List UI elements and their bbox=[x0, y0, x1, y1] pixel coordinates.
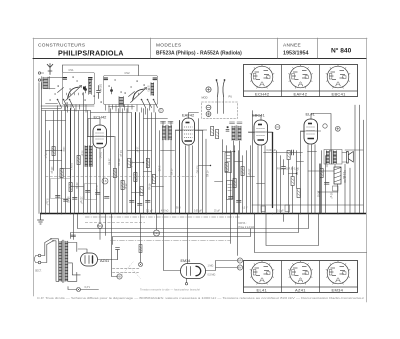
wire h y160 bbox=[50, 160, 62, 162]
wire v x230 bbox=[230, 151, 232, 214]
resistor R17 bbox=[297, 189, 300, 198]
wire v x242 bbox=[242, 156, 244, 214]
transformer secondary winding bbox=[65, 241, 68, 282]
socket EM34 bbox=[326, 260, 350, 284]
socket box2 divider 1 bbox=[281, 261, 283, 293]
resistor R1 bbox=[52, 147, 55, 156]
resistor R15 bbox=[287, 151, 290, 160]
ground symbol bbox=[37, 214, 44, 225]
capacitor C15 polar bbox=[71, 235, 76, 237]
wire v x300 bbox=[300, 156, 302, 214]
wire drop x105 bbox=[105, 214, 107, 236]
gang section 1 outline bbox=[63, 73, 95, 105]
wire IFT1 bottom bbox=[163, 139, 171, 213]
wire top link bbox=[63, 64, 139, 66]
mains switch bbox=[45, 239, 53, 245]
svg-text:50 µF: 50 µF bbox=[330, 193, 333, 200]
wire h seg7 bbox=[199, 165, 211, 167]
wire v x179 rail bbox=[179, 121, 181, 214]
svg-text:50 kΩ: 50 kΩ bbox=[67, 197, 70, 204]
resistor R11 bbox=[152, 175, 155, 184]
socket ECH42 bbox=[250, 64, 274, 88]
wire h seg16 bbox=[161, 150, 175, 152]
resistor R5 bbox=[113, 169, 116, 178]
svg-text:0,1 µF: 0,1 µF bbox=[119, 150, 122, 157]
capacitor C12b bbox=[282, 167, 286, 169]
wire v x208b bbox=[205, 139, 207, 213]
wire v x252 bbox=[252, 111, 254, 214]
dial cord dotted b bbox=[130, 267, 141, 279]
coil L1 antenna coil bbox=[43, 77, 48, 89]
junction dots row bbox=[111, 213, 113, 215]
wire v x238 bbox=[238, 151, 240, 214]
svg-text:AZ41: AZ41 bbox=[295, 287, 306, 292]
socket box frame bottom bbox=[244, 261, 358, 293]
resistor R4 bbox=[77, 156, 80, 165]
wire OT down pair bbox=[327, 164, 335, 167]
capacitor C4 bbox=[86, 191, 91, 193]
wire v x363 bbox=[363, 120, 365, 213]
node dots center bbox=[143, 213, 145, 215]
node dots bus left bbox=[41, 213, 43, 215]
mains plug bbox=[38, 254, 41, 257]
svg-text:90 V: 90 V bbox=[176, 208, 181, 210]
antenna A1 bbox=[47, 64, 53, 75]
wire v x175 bbox=[175, 131, 177, 214]
junction dots bus right bbox=[254, 213, 256, 215]
switch arm b bbox=[129, 92, 135, 97]
band coil winding box1 bbox=[89, 79, 92, 95]
tube EBC41 bbox=[248, 120, 273, 145]
resistor R8 bbox=[134, 173, 137, 182]
svg-text:EL41: EL41 bbox=[306, 112, 316, 117]
wire drop x237 bbox=[237, 214, 239, 256]
osc coil winding b bbox=[90, 146, 93, 167]
wire v x222 bbox=[222, 140, 224, 214]
jack J2 circled bbox=[206, 112, 211, 117]
trimmer CT1b bbox=[89, 78, 93, 80]
output transformer secondary bbox=[333, 151, 336, 164]
wire v x321 bbox=[321, 151, 323, 214]
dashed link heaters bbox=[113, 268, 141, 270]
variable capacitor CV2 bbox=[134, 90, 143, 99]
wire v x325 bbox=[325, 156, 327, 214]
switch S2 contacts bbox=[142, 100, 158, 108]
wire h seg4 bbox=[132, 162, 144, 164]
wire b02 bbox=[99, 214, 101, 240]
wire h seg5 bbox=[144, 171, 152, 173]
svg-text:0,1 µF: 0,1 µF bbox=[277, 211, 284, 213]
svg-text:BR: BR bbox=[238, 259, 242, 263]
wire plate EL41 bbox=[311, 114, 331, 152]
wire v x151 bbox=[151, 113, 153, 214]
dash-dot line mid bbox=[111, 240, 231, 242]
svg-text:0,1 µF: 0,1 µF bbox=[46, 199, 49, 206]
resistor R13 bbox=[233, 179, 236, 188]
wire h seg12 bbox=[257, 183, 265, 185]
wire EM34 right bbox=[206, 261, 238, 271]
transformer primary winding bbox=[59, 241, 62, 282]
svg-text:0,1 µF: 0,1 µF bbox=[146, 211, 153, 213]
svg-text:20 kΩ: 20 kΩ bbox=[99, 152, 102, 159]
transformer core bbox=[63, 240, 64, 283]
svg-text:1 MΩ: 1 MΩ bbox=[158, 166, 161, 172]
chassis dash line bbox=[85, 216, 240, 218]
wire v x65 bbox=[65, 106, 67, 214]
svg-text:B02: B02 bbox=[98, 225, 103, 228]
svg-text:47 kΩ: 47 kΩ bbox=[170, 169, 173, 176]
svg-text:25 µF: 25 µF bbox=[214, 211, 221, 213]
svg-text:0,5 MΩ: 0,5 MΩ bbox=[196, 166, 199, 174]
svg-text:100 pF: 100 pF bbox=[248, 169, 251, 177]
wire drop x230 bbox=[230, 214, 232, 244]
capacitor C5 bbox=[96, 193, 101, 195]
wire v x202 bbox=[202, 131, 204, 214]
wire antenna to coil bbox=[41, 73, 44, 80]
svg-text:EAF42: EAF42 bbox=[294, 91, 308, 96]
coupling capacitor C12 bbox=[292, 150, 294, 155]
wire h seg15 bbox=[308, 151, 317, 153]
speaker HP bbox=[347, 152, 349, 164]
wire plate ECH42 bbox=[107, 136, 115, 138]
switch S3 contact a bbox=[217, 81, 219, 97]
capacitor Cdet bbox=[226, 130, 229, 132]
svg-text:C.P. Tous droits — Schéma diff: C.P. Tous droits — Schéma diffusé pour l… bbox=[37, 296, 364, 300]
wire v x345 bbox=[344, 164, 346, 213]
socket AZ41 bbox=[288, 260, 312, 284]
socket EL41 bbox=[250, 260, 274, 284]
wire grid EL41 bbox=[301, 132, 305, 156]
IFT2 winding a bbox=[232, 126, 235, 141]
wire v x41 bbox=[41, 83, 43, 214]
capacitor C1 bbox=[56, 196, 61, 198]
svg-text:MOD: MOD bbox=[202, 96, 208, 100]
OT shield box bbox=[324, 150, 342, 165]
wire heater run y232 bbox=[71, 214, 299, 239]
svg-text:0,5 MΩ: 0,5 MΩ bbox=[208, 274, 216, 277]
wire drop x140 bbox=[140, 214, 142, 263]
wire v x198 bbox=[198, 119, 200, 214]
wire h seg3 bbox=[71, 186, 84, 188]
wire v x74 bbox=[74, 109, 76, 214]
wire v x288 bbox=[288, 160, 290, 214]
wire grid EAF42 bbox=[176, 130, 183, 132]
resistor R10 bbox=[146, 159, 149, 168]
junction dot L1 bbox=[61, 150, 62, 151]
wire drop x73 bbox=[73, 214, 75, 240]
svg-text:220 pF: 220 pF bbox=[80, 197, 83, 205]
wire v x338 below bbox=[337, 184, 339, 213]
coupling wire y152 bbox=[264, 152, 303, 154]
dashed link heaters 2 bbox=[113, 272, 139, 274]
resistor R3 bbox=[69, 183, 72, 192]
resistor R7 bbox=[128, 159, 131, 168]
wire h y106 rf bbox=[109, 106, 135, 108]
trimmer dot2 bbox=[110, 89, 113, 92]
svg-text:EM34: EM34 bbox=[181, 259, 191, 263]
svg-text:EM34: EM34 bbox=[332, 287, 344, 292]
wire v x61 bbox=[61, 111, 63, 214]
socket box label strip rule bbox=[244, 90, 358, 92]
wire h y120 bbox=[46, 120, 66, 122]
resistor R6 bbox=[121, 181, 124, 190]
wire h seg8 bbox=[215, 181, 223, 183]
IFT2 core bbox=[235, 126, 238, 141]
heater wire lamp bbox=[77, 288, 81, 292]
svg-text:470 kΩ: 470 kΩ bbox=[161, 211, 169, 213]
svg-text:53141: 53141 bbox=[70, 163, 73, 170]
node BR circled bbox=[237, 258, 242, 263]
wire v x234 bbox=[234, 146, 236, 214]
wire h seg6 bbox=[152, 186, 164, 188]
wire transformer to speaker bbox=[342, 153, 347, 163]
wire AZ41 top pin bbox=[78, 249, 87, 253]
svg-text:ECH42: ECH42 bbox=[255, 91, 270, 96]
switch S3 contact b bbox=[223, 81, 225, 97]
svg-text:25 kΩ: 25 kΩ bbox=[108, 159, 111, 166]
connector block small bbox=[333, 186, 339, 191]
IFT1 winding b bbox=[169, 126, 172, 141]
pot P1 circled bbox=[206, 87, 211, 92]
resistor R16 bbox=[291, 177, 294, 186]
IFT1 winding a bbox=[163, 126, 166, 141]
wire loop below bus bbox=[266, 214, 319, 246]
IFT2 trimmer bbox=[230, 122, 243, 124]
wire v x110 bbox=[110, 109, 112, 214]
wire v x45 bbox=[45, 111, 47, 214]
wire v x90 bbox=[90, 111, 92, 214]
wire h seg13 bbox=[289, 173, 297, 175]
tube EL41 bbox=[300, 119, 321, 144]
label REGL circled bbox=[154, 230, 160, 236]
capacitor C3 bbox=[73, 198, 78, 200]
svg-text:1 kΩ: 1 kΩ bbox=[62, 147, 64, 152]
pot box P3 bbox=[227, 181, 233, 200]
header divider 3 bbox=[317, 38, 319, 58]
wire HT secondary top bbox=[68, 243, 77, 252]
socket box2 divider 2 bbox=[319, 261, 321, 293]
resistor R18 cathode bbox=[320, 169, 323, 178]
wire EAF42 pins bbox=[186, 146, 193, 214]
wire v x272 thick HT bbox=[272, 133, 274, 208]
dark blob pad bbox=[83, 87, 86, 90]
wire plug up bbox=[41, 243, 47, 263]
wire switch drops bbox=[218, 97, 224, 114]
svg-text:6,3 V: 6,3 V bbox=[242, 208, 248, 210]
svg-text:6,3 V: 6,3 V bbox=[85, 286, 91, 289]
svg-text:SECT.: SECT. bbox=[35, 271, 42, 273]
capacitor C11 bbox=[237, 201, 242, 203]
svg-text:1953/1954: 1953/1954 bbox=[283, 51, 308, 57]
wire v x118 bbox=[118, 109, 120, 214]
bus value labels bbox=[146, 208, 284, 213]
wire v x131 bbox=[131, 113, 133, 214]
wire v x226 bbox=[226, 146, 228, 214]
jack J1 circled bbox=[206, 105, 211, 110]
wire v x355 bbox=[354, 105, 356, 213]
svg-text:50 pF: 50 pF bbox=[81, 151, 83, 157]
wire h seg14 bbox=[297, 161, 304, 163]
socket EAF42 bbox=[288, 64, 312, 88]
label B02 circled bbox=[98, 224, 103, 229]
wire EBC41 top bbox=[253, 116, 261, 121]
osc coil winding a bbox=[85, 146, 88, 167]
wire v x246 bbox=[246, 151, 248, 214]
svg-text:CV1: CV1 bbox=[69, 68, 75, 72]
frame top rule bbox=[33, 38, 367, 40]
wire v x139 bbox=[139, 113, 141, 214]
svg-text:REG: REG bbox=[154, 232, 159, 235]
wire osc top link bbox=[88, 119, 100, 137]
capacitor C2 bbox=[64, 200, 69, 202]
wire plate to OT bbox=[329, 150, 331, 153]
svg-text:N° 840: N° 840 bbox=[331, 47, 352, 55]
wire drop x187 bbox=[187, 214, 189, 264]
resistor R14 bbox=[241, 167, 244, 176]
dial lamp bbox=[139, 263, 143, 267]
svg-text:B.870: B.870 bbox=[147, 86, 149, 93]
wire h seg2 bbox=[62, 168, 71, 170]
svg-text:Tension mesurée à vide — haut-: Tension mesurée à vide — haut-parleur br… bbox=[140, 289, 201, 292]
wire IFT1 top bbox=[163, 122, 171, 127]
resistor drop box bbox=[139, 245, 142, 253]
socket box2 label strip rule bbox=[244, 286, 358, 288]
wire v x93 pins bbox=[97, 149, 104, 214]
node BV circled bbox=[237, 265, 242, 270]
wire grid EBC41 bbox=[249, 132, 255, 134]
padder cap bbox=[97, 86, 101, 99]
wire h y106 bbox=[41, 105, 94, 107]
wire v x57 bbox=[57, 106, 59, 214]
resistor R2 bbox=[60, 169, 63, 178]
svg-text:1 MΩ: 1 MΩ bbox=[208, 265, 214, 268]
svg-text:ANNEE: ANNEE bbox=[283, 43, 301, 49]
svg-text:100 pF: 100 pF bbox=[50, 167, 52, 175]
gang section 2 outline bbox=[104, 76, 158, 105]
trimmer CT2a bbox=[104, 78, 108, 80]
svg-text:O: O bbox=[160, 110, 162, 113]
pin comb below gang boxes bbox=[65, 105, 155, 115]
socket box divider 1 bbox=[281, 65, 283, 97]
wire v x155 bbox=[155, 113, 157, 214]
node circled 7-8 bbox=[102, 178, 108, 184]
frame left border bbox=[33, 38, 35, 296]
svg-text:MODELES: MODELES bbox=[156, 43, 182, 49]
terminal strip a bbox=[261, 206, 266, 212]
wire h y185 bbox=[318, 191, 338, 193]
wire v x280 bbox=[280, 156, 282, 214]
wire v x87 bbox=[87, 111, 89, 214]
socket box frame top bbox=[244, 65, 358, 97]
wire heater run y236 bbox=[113, 229, 251, 245]
wire plate EAF42 bbox=[195, 130, 203, 132]
svg-text:EBC41: EBC41 bbox=[332, 91, 347, 96]
wire v x147 bbox=[147, 109, 149, 214]
wire EAF42 top bbox=[189, 113, 199, 119]
trimmer dot bbox=[84, 88, 87, 91]
switch S1 contacts bbox=[58, 100, 74, 108]
svg-text:7·8: 7·8 bbox=[103, 180, 107, 183]
wire AZ41 cathode out bbox=[98, 214, 112, 260]
AVC line dashed bbox=[46, 176, 196, 178]
box outline R cluster b bbox=[85, 184, 97, 200]
wire mains run right bbox=[255, 214, 367, 253]
filter electrolytic C14 bbox=[116, 248, 120, 260]
capacitor C7 bbox=[130, 201, 135, 203]
wire h seg9 bbox=[223, 151, 235, 153]
header divider 2 bbox=[277, 38, 279, 58]
wire v x114 bbox=[114, 137, 116, 214]
wire h seg11 bbox=[247, 176, 255, 178]
svg-text:PHILIPS/RADIOLA: PHILIPS/RADIOLA bbox=[58, 49, 124, 58]
trimmer CT2b bbox=[153, 78, 157, 80]
wire h y112 bbox=[91, 112, 132, 114]
wire h y192 bbox=[132, 192, 144, 194]
wire switch to transformer bbox=[51, 239, 59, 281]
capacitor C10 bbox=[229, 197, 234, 199]
resistor Rd2 bbox=[216, 130, 219, 139]
pot box P2 bbox=[225, 153, 232, 173]
wire EBC41 pins bbox=[258, 146, 265, 214]
coil L2 osc coil bbox=[119, 97, 124, 107]
wire h seg1 bbox=[46, 150, 62, 152]
wire v x250 bbox=[250, 146, 252, 214]
chassis ground bus bbox=[40, 213, 366, 215]
wire x117 bbox=[112, 259, 118, 261]
svg-text:0,047 µF: 0,047 µF bbox=[267, 149, 277, 152]
IFT2 winding b bbox=[238, 126, 241, 141]
node circled IF bbox=[159, 108, 163, 112]
junction dots bus mid bbox=[45, 213, 241, 215]
tuning indicator EM34 bbox=[181, 264, 206, 279]
wire v x53 bbox=[53, 111, 55, 171]
wire h y103 rf bbox=[46, 103, 58, 105]
terminal strip b bbox=[285, 205, 290, 212]
field coil resistor hatched bbox=[334, 167, 341, 184]
wire h y118b bbox=[144, 118, 168, 120]
wire v x143 bbox=[143, 109, 145, 214]
svg-text:22 kΩ: 22 kΩ bbox=[75, 183, 77, 189]
wire h y110 bbox=[42, 110, 91, 112]
wire plate EBC41 bbox=[268, 132, 273, 134]
resistor R9 bbox=[140, 187, 143, 196]
svg-text:EBC41: EBC41 bbox=[252, 113, 265, 118]
wire IFT2 bottom bbox=[234, 141, 240, 214]
tick row gang2 bbox=[135, 93, 139, 95]
wire v x350 bbox=[349, 168, 351, 213]
wire v x296 bbox=[296, 151, 298, 189]
capacitor C13 bbox=[325, 183, 330, 185]
wire grid ECH42 bbox=[88, 136, 94, 138]
wire L1 to gang bbox=[48, 78, 63, 89]
wire v x38.5 bbox=[38, 83, 40, 214]
socket box divider 2 bbox=[319, 65, 321, 97]
svg-text:NOTA :: NOTA : bbox=[239, 222, 247, 225]
output transformer core bbox=[330, 150, 333, 164]
IFT1 trimmers bbox=[161, 122, 174, 124]
wire to AB bbox=[112, 260, 117, 277]
tube EAF42 bbox=[175, 118, 207, 145]
wire v x126 bbox=[126, 109, 128, 214]
wire v x49 bbox=[49, 131, 51, 214]
HT thick feed x320 bbox=[319, 164, 321, 213]
wire v x276 bbox=[276, 151, 278, 214]
core L1 bbox=[42, 77, 50, 90]
wire v x83 bbox=[83, 93, 85, 214]
wire drop x163 bbox=[164, 214, 181, 271]
svg-text:PU: PU bbox=[229, 95, 233, 99]
dial cord dotted a bbox=[122, 262, 134, 275]
